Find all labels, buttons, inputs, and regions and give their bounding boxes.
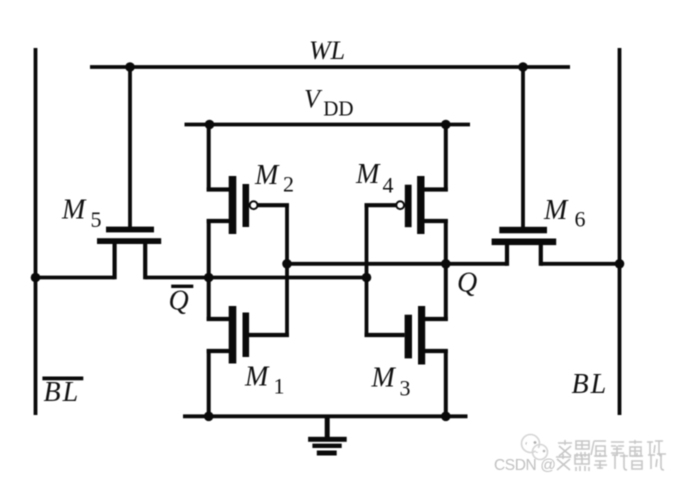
node VDD-left — [205, 120, 215, 130]
svg-text:M: M — [244, 362, 270, 393]
node GND-left — [204, 412, 214, 422]
transistor M2 (PMOS pull-up, left) — [207, 190, 289, 222]
node WL-M6 — [518, 62, 528, 72]
wire right branch M4 drain to M3 drain (node Q) — [444, 219, 448, 321]
svg-text:Q: Q — [169, 286, 189, 317]
node Qbar drain — [204, 273, 214, 283]
wire node Q horizontal (upper mid wire) — [287, 262, 507, 266]
wire node Qbar horizontal left (BLbar to M5) — [36, 276, 115, 280]
node VDD-right — [441, 120, 451, 130]
wire WL to M5 gate — [128, 67, 132, 230]
transistor M6 (NMOS access, right) — [492, 227, 557, 245]
wire right inverter gates vertical (to node Qbar) — [365, 205, 369, 335]
wire GND rail — [183, 414, 468, 418]
wire left branch M2 drain to M1 drain (node Qbar) — [207, 219, 211, 321]
svg-text:M: M — [355, 159, 381, 190]
svg-text:BL: BL — [572, 369, 609, 400]
svg-text:M: M — [371, 363, 397, 394]
node WL-M5 — [125, 62, 135, 72]
wire left branch VDD to M2 source — [207, 123, 211, 192]
svg-text:BL: BL — [44, 377, 81, 408]
svg-text:M: M — [543, 195, 569, 226]
node Q drain — [441, 259, 451, 269]
transistor M1 (NMOS pull-down, left) — [207, 319, 289, 351]
wire node Qbar horizontal right (M5 to M3/M4 gates) — [145, 276, 366, 280]
node GND-right — [441, 412, 451, 422]
ground — [308, 416, 347, 455]
wire BLbar bit line (left vertical) — [34, 48, 38, 415]
wire BL bit line (right vertical) — [618, 48, 622, 415]
svg-text:6: 6 — [575, 207, 586, 232]
svg-text:DD: DD — [323, 97, 353, 121]
transistor M3 (NMOS pull-down, right) — [365, 319, 448, 351]
transistor M4 (PMOS pull-up, right) — [365, 190, 448, 222]
wire WL word line — [90, 65, 570, 69]
svg-text:4: 4 — [383, 173, 394, 198]
wire right branch VDD to M4 source — [444, 123, 448, 192]
wire right branch M3 source to GND rail — [444, 349, 448, 418]
svg-text:V: V — [304, 85, 323, 114]
svg-text:Q: Q — [457, 268, 477, 299]
svg-text:WL: WL — [309, 36, 345, 65]
transistor M5 (NMOS access, left) — [97, 227, 161, 244]
wire left branch M1 source to GND rail — [207, 349, 211, 418]
node Q gates-T — [282, 259, 292, 269]
node Qbar-BLbar — [31, 273, 41, 283]
svg-text:M: M — [254, 160, 280, 191]
svg-text:5: 5 — [91, 207, 102, 232]
svg-text:2: 2 — [283, 172, 294, 197]
wire WL to M6 gate — [521, 67, 525, 230]
svg-text:M: M — [61, 195, 87, 226]
wire left inverter gates vertical (to node Q) — [285, 205, 289, 335]
wire VDD rail — [185, 123, 471, 127]
node Q-BL — [615, 259, 625, 269]
svg-text:1: 1 — [274, 374, 285, 399]
watermark logo — [522, 435, 548, 460]
svg-text:3: 3 — [400, 376, 411, 401]
wire M6 right lead to BL — [541, 262, 620, 266]
watermark text line 1 (pseudo CJK) — [558, 440, 663, 457]
node Qbar gates-T — [362, 273, 372, 283]
svg-text:CSDN @: CSDN @ — [494, 457, 556, 474]
